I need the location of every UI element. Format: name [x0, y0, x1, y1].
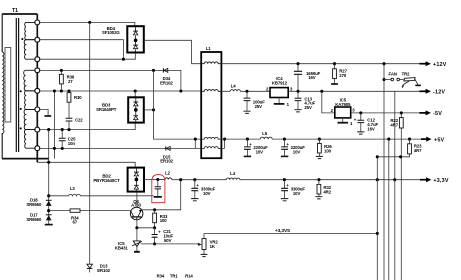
svg-text:+5V: +5V — [434, 137, 445, 143]
node D34 wire / 5V riser — [152, 69, 155, 72]
node R33 bottom — [153, 226, 156, 229]
winding L1a — [201, 62, 221, 64]
capacitor 100uF 25V — [246, 91, 248, 111]
pin 6 — [35, 107, 40, 112]
wire return column x48 — [48, 130, 50, 225]
wire pin6 stub — [40, 109, 48, 115]
svg-text:10V: 10V — [256, 150, 264, 155]
svg-text:67: 67 — [73, 220, 78, 225]
capacitor 2200uF 10V a — [246, 138, 249, 141]
capacitor 3300uF 10V a — [193, 178, 196, 181]
capacitor C22 — [66, 118, 73, 121]
output +5V — [421, 138, 427, 140]
SECTION: regulator area — [152, 46, 421, 203]
svg-text:KB7912: KB7912 — [272, 80, 288, 85]
output +3,3V — [420, 179, 426, 181]
node 3.3V riser — [179, 178, 182, 181]
svg-text:100: 100 — [324, 148, 332, 153]
diode D17 — [46, 214, 52, 216]
node pin2/pin3 join — [122, 58, 125, 61]
svg-text:L4: L4 — [230, 171, 236, 176]
winding secondary S3 — [24, 70, 38, 90]
node R33 top — [153, 208, 156, 211]
node Q4 emitter — [135, 226, 138, 229]
svg-text:4R2: 4R2 — [323, 190, 331, 195]
resistor R34 — [49, 210, 131, 212]
pin 4 — [35, 68, 40, 73]
svg-text:10V: 10V — [293, 191, 301, 196]
connector fan — [391, 78, 394, 81]
capacitor C25 — [61, 130, 63, 149]
svg-text:L4: L4 — [231, 83, 237, 88]
pin 1 — [35, 20, 40, 25]
wire sense +3.3VS x377 — [376, 178, 379, 181]
resistor R32 — [317, 178, 320, 181]
node pin1 junction — [88, 21, 91, 24]
polarity dot S5 — [20, 127, 22, 129]
wire primary left side — [1, 14, 3, 159]
winding secondary S5 — [24, 109, 37, 129]
wire BD2 top feed — [37, 162, 135, 167]
wire pin4 row through D34 — [40, 70, 181, 91]
svg-text:10V: 10V — [293, 150, 301, 155]
inductor L5 — [260, 137, 272, 139]
wire w4 right jog — [221, 139, 224, 148]
svg-text:25V: 25V — [255, 104, 263, 109]
thermistor TR2 — [400, 79, 404, 81]
svg-text:T1: T1 — [12, 8, 18, 14]
wire w4 left jog — [194, 139, 196, 148]
wire BD2 output — [144, 179, 158, 181]
wire secondary pin column (thick) — [36, 14, 38, 162]
svg-text:-12V: -12V — [433, 90, 445, 96]
rectifier BD3 — [128, 97, 144, 122]
wire +3.3VS sense — [204, 232, 377, 234]
SECTION: right rails — [331, 61, 449, 280]
wire -5V rail — [351, 112, 420, 114]
capacitor 2200uF 10V b — [283, 138, 286, 141]
svg-text:10V: 10V — [203, 191, 211, 196]
svg-text:100: 100 — [160, 218, 168, 223]
svg-text:A733: A733 — [131, 203, 142, 208]
svg-text:+12V: +12V — [433, 62, 447, 68]
svg-text:L1: L1 — [206, 46, 212, 51]
capacitor C13 — [297, 91, 299, 109]
transistor Q4 — [130, 207, 143, 220]
wire pin2 down to pin3 row — [40, 40, 124, 60]
node C12 tap — [359, 111, 362, 114]
rectifier BD2 — [128, 168, 144, 192]
svg-text:R14: R14 — [185, 274, 193, 279]
node pin5/54 — [53, 89, 56, 92]
wire +5V rail — [221, 138, 421, 140]
regulator IC4 KB7912 — [270, 88, 288, 98]
wire long vertical x89 — [89, 22, 91, 264]
wire -12V rail — [221, 90, 420, 92]
inductor L3 — [49, 194, 154, 195]
choke L1 — [201, 52, 221, 158]
pin 3 — [35, 57, 40, 62]
svg-text:SF1002G: SF1002G — [102, 30, 120, 35]
resistor R33 — [154, 210, 156, 228]
svg-text:16V: 16V — [308, 75, 316, 80]
svg-text:ER102: ER102 — [160, 80, 173, 85]
ground bar under L2 — [154, 196, 162, 198]
svg-text:L2: L2 — [165, 171, 171, 176]
svg-text:25V: 25V — [304, 105, 312, 110]
node R22/R23 join — [399, 155, 402, 158]
node pin7/C22 — [67, 128, 70, 131]
SECTION: transformer — [2, 8, 49, 162]
resistor R30 — [67, 89, 70, 92]
polarity dot S2 — [21, 38, 23, 40]
svg-text:16V: 16V — [367, 126, 375, 131]
shunt reg IC5 KB431 — [136, 228, 138, 241]
SECTION: left pins wiring — [26, 21, 201, 273]
svg-text:50V: 50V — [164, 238, 172, 243]
svg-text:27: 27 — [68, 79, 73, 84]
svg-text:C22: C22 — [75, 118, 83, 123]
wire sense +5V x388 — [387, 138, 390, 141]
node pin8/C25 — [61, 147, 64, 150]
wire BD4 output to L1 — [144, 40, 202, 63]
output -12V — [419, 90, 426, 92]
node R34 tap — [47, 209, 50, 212]
screen winding box — [5, 48, 11, 123]
winding secondary S1 — [25, 22, 38, 39]
capacitor C12 — [360, 113, 362, 132]
polarity dot S3 — [20, 90, 22, 92]
node BD3 top tap — [134, 89, 137, 92]
svg-text:SR6560: SR6560 — [26, 217, 42, 222]
node return/BD2 feed — [47, 161, 50, 164]
diode D15 — [165, 146, 167, 150]
node pin7/return column — [47, 128, 50, 131]
inductor L4 — [230, 90, 240, 92]
svg-text:TR1: TR1 — [170, 274, 179, 279]
output -5V — [419, 112, 426, 114]
wire pin7 row to BD3 bottom — [40, 123, 135, 130]
svg-text:270: 270 — [339, 73, 347, 78]
wire transformer bottom return (thick) — [2, 158, 49, 160]
diode D13 — [87, 264, 93, 268]
resistor R26 — [318, 138, 321, 141]
svg-text:R30: R30 — [74, 95, 82, 100]
svg-text:+3,3V: +3,3V — [433, 178, 448, 184]
svg-text:FAN: FAN — [389, 71, 397, 76]
wire pin5 row to L1 — [40, 90, 202, 92]
polarity dot S4 — [20, 108, 22, 110]
winding secondary S2 — [24, 40, 37, 60]
svg-text:SR1640PT: SR1640PT — [96, 107, 117, 112]
resistor R36 — [60, 69, 63, 72]
resistor R22 — [400, 111, 403, 114]
svg-text:L3: L3 — [70, 186, 76, 191]
svg-text:4R7: 4R7 — [390, 122, 398, 127]
svg-text:KB431: KB431 — [115, 245, 129, 250]
svg-text:PBYR1640CT: PBYR1640CT — [93, 178, 120, 183]
ground return column — [45, 224, 53, 226]
transformer core — [16, 18, 18, 152]
capacitor under L2 — [157, 180, 159, 197]
wire BD3 top riser — [134, 91, 136, 97]
resistor R27 — [333, 62, 336, 65]
svg-text:+3,3VS: +3,3VS — [275, 228, 291, 234]
winding L1b — [201, 90, 221, 92]
inductor L4 bottom — [226, 178, 240, 180]
node L3 tap — [47, 194, 50, 197]
regulator IC5 KA7905 — [335, 107, 351, 118]
svg-text:-5V: -5V — [433, 111, 442, 117]
svg-text:4R7: 4R7 — [414, 148, 422, 153]
svg-text:KA7905: KA7905 — [335, 102, 351, 107]
node 100uF tap — [245, 90, 248, 93]
highlight red loop around L2 — [152, 175, 165, 203]
svg-text:R34: R34 — [157, 274, 165, 279]
pin 7 — [35, 127, 40, 132]
svg-text:ER102: ER102 — [97, 268, 110, 273]
diode D34 — [162, 68, 164, 72]
wire 5V riser x153 — [154, 70, 202, 139]
resistor R23 — [408, 138, 411, 141]
wire BD3 output — [144, 109, 154, 111]
svg-text:L5: L5 — [262, 131, 268, 136]
node BD3 output — [152, 108, 155, 111]
potentiometer VR2 — [202, 239, 206, 250]
capacitor C21 — [154, 228, 156, 244]
wire pin1 to BD4 top — [40, 22, 135, 26]
svg-text:ER102: ER102 — [160, 159, 173, 164]
svg-text:10n: 10n — [68, 141, 76, 146]
wire pin8 row to L1 w4 — [40, 147, 202, 149]
diode D18 — [46, 199, 52, 201]
node pin8/54 — [53, 147, 56, 150]
wire top primary (thick) — [3, 13, 38, 15]
winding L1c — [201, 137, 221, 139]
wire IC5 input riser — [320, 90, 323, 93]
pin 2 — [35, 37, 40, 42]
node C21 bottom — [153, 242, 156, 245]
SECTION: rectifiers — [93, 26, 377, 279]
svg-text:SR6560: SR6560 — [26, 202, 42, 207]
wire wiper to VR2 — [141, 243, 199, 245]
fan circuit tap — [382, 78, 385, 81]
node pin7/C25 — [61, 128, 64, 131]
wire +12V rail — [221, 63, 420, 65]
wire pin3 to BD4 bottom — [40, 53, 135, 60]
winding primary P1 — [2, 52, 4, 133]
wire Q4 base right segment to 3.3V rail riser — [143, 180, 181, 210]
node L1 w2 input — [179, 89, 182, 92]
capacitor 3300uF 10V b — [283, 178, 286, 181]
capacitor 1650uF 16V — [296, 62, 299, 65]
winding secondary S4 — [25, 91, 38, 110]
pin 8 — [35, 146, 40, 151]
svg-text:TR2: TR2 — [402, 71, 411, 76]
winding secondary S6 — [24, 130, 37, 149]
wire vertical sense x54 — [53, 91, 55, 159]
output +12V — [419, 63, 426, 65]
rectifier BD4 — [127, 26, 144, 52]
ground pin6 — [44, 115, 51, 117]
wire Q4 emitter row — [137, 220, 155, 228]
wire BD2 bottom to Q4 — [136, 192, 138, 208]
wire sense x394 — [393, 178, 396, 181]
winding L1d — [201, 147, 221, 149]
wire sense +12V x384 — [382, 62, 385, 65]
inductor L2 — [156, 178, 159, 181]
pin 5 — [35, 88, 40, 93]
wire +3.3V rail — [172, 179, 420, 181]
